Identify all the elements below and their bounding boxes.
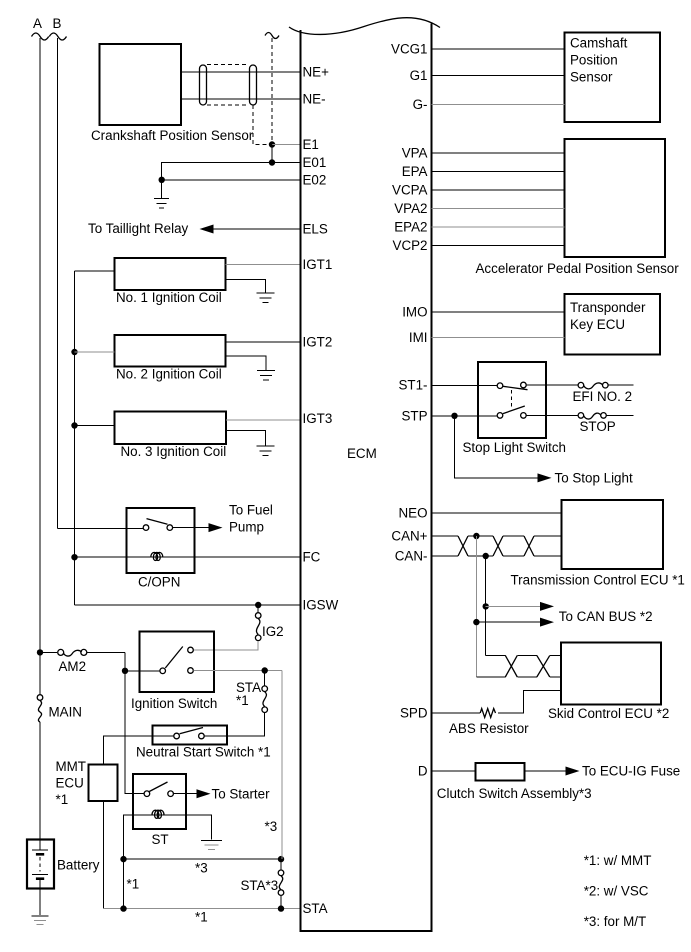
svg-text:CAN+: CAN+ bbox=[391, 529, 427, 544]
wire fuel pump switch feed bbox=[58, 528, 144, 530]
fuse EFI NO. 2 bbox=[578, 382, 633, 388]
svg-text:IG2: IG2 bbox=[262, 624, 284, 639]
stop light switch bbox=[478, 362, 546, 438]
ECM right edge bbox=[431, 24, 433, 932]
svg-text:IGSW: IGSW bbox=[303, 598, 339, 613]
dashed wire to E1 bbox=[271, 38, 273, 141]
svg-text:*1: *1 bbox=[236, 693, 249, 708]
wire coil2 supply bbox=[75, 351, 115, 353]
node E02 junction bbox=[159, 177, 165, 183]
wire ST coil to STA line bbox=[123, 859, 125, 909]
svg-text:*1: *1 bbox=[56, 792, 69, 807]
contact ST right bbox=[168, 791, 174, 797]
battery bbox=[27, 840, 54, 916]
svg-text:VCP2: VCP2 bbox=[393, 238, 428, 253]
svg-text:Crankshaft Position Sensor: Crankshaft Position Sensor bbox=[91, 128, 254, 143]
svg-text:To Fuel: To Fuel bbox=[229, 503, 273, 518]
relay ST bbox=[133, 774, 186, 829]
svg-text:To ECU-IG Fuse: To ECU-IG Fuse bbox=[582, 764, 680, 779]
wire ST relay feed bbox=[125, 671, 144, 794]
svg-text:*3: *3 bbox=[265, 819, 278, 834]
skid twisted pair crossings bbox=[505, 655, 550, 677]
wire MMT ECU to STA line bbox=[102, 801, 104, 909]
contact ignition common (bottom left) bbox=[160, 668, 166, 674]
wire ST coil ground bbox=[186, 815, 211, 840]
svg-text:VPA2: VPA2 bbox=[394, 201, 427, 216]
wire EPA2 bbox=[432, 226, 565, 228]
svg-text:FC: FC bbox=[303, 550, 321, 565]
wire CAN+ drop bbox=[475, 536, 477, 677]
transponder key ECU bbox=[565, 294, 661, 355]
wire E02 bbox=[162, 179, 300, 181]
wire IGT2 bbox=[226, 341, 301, 343]
node STA*1 junction bbox=[262, 667, 268, 673]
arrow to ECU-IG fuse bbox=[566, 767, 580, 776]
node to stop light junction bbox=[451, 413, 457, 419]
svg-text:E01: E01 bbox=[303, 155, 327, 170]
svg-text:To Starter: To Starter bbox=[212, 786, 271, 801]
arrow to starter bbox=[197, 789, 211, 798]
wire E1 bbox=[272, 144, 300, 146]
wire G- bbox=[432, 104, 565, 106]
svg-text:IMI: IMI bbox=[409, 330, 428, 345]
svg-text:G1: G1 bbox=[410, 68, 428, 83]
wire coil3 ground bbox=[226, 430, 266, 446]
MMT ECU bbox=[89, 764, 118, 801]
contact NSS right bbox=[199, 733, 205, 739]
svg-text:No. 1 Ignition Coil: No. 1 Ignition Coil bbox=[116, 290, 222, 305]
wire coil1 ground bbox=[226, 279, 266, 293]
wire VCG1 bbox=[432, 48, 565, 50]
node IG2 junction bbox=[255, 602, 261, 608]
accelerator pedal position sensor bbox=[565, 139, 666, 257]
wire IGT1 bbox=[226, 264, 301, 266]
ground (coil 1) bbox=[257, 293, 275, 303]
svg-text:AM2: AM2 bbox=[59, 659, 87, 674]
wire IGT3 bbox=[226, 419, 300, 421]
svg-text:To Stop Light: To Stop Light bbox=[555, 470, 633, 485]
svg-text:*2: w/ VSC: *2: w/ VSC bbox=[584, 884, 649, 899]
svg-text:CAN-: CAN- bbox=[395, 548, 428, 563]
shield (dashed) bbox=[207, 65, 249, 106]
svg-text:No. 3 Ignition Coil: No. 3 Ignition Coil bbox=[121, 444, 227, 459]
node coil2 supply junction bbox=[71, 349, 77, 355]
node AM2 junction on wire A bbox=[37, 649, 43, 655]
wire VPA bbox=[432, 152, 565, 154]
svg-text:MMT: MMT bbox=[56, 759, 87, 774]
node FC-bus junction bbox=[71, 554, 77, 560]
node CAN bus arrow top junction bbox=[483, 603, 489, 609]
relay C/OPN bbox=[127, 508, 195, 573]
svg-text:Neutral Start Switch *1: Neutral Start Switch *1 bbox=[136, 745, 271, 760]
wire EPA bbox=[432, 171, 565, 173]
ground (coil 2) bbox=[257, 371, 275, 381]
svg-text:ELS: ELS bbox=[303, 222, 328, 237]
wire A break symbol bbox=[32, 33, 49, 40]
ignition coil 2 bbox=[115, 335, 226, 367]
svg-text:E02: E02 bbox=[303, 172, 327, 187]
wire IGSW bbox=[75, 604, 301, 606]
svg-text:VCPA: VCPA bbox=[392, 183, 428, 198]
arrow to stop light bbox=[538, 473, 552, 482]
wire CAN- (twisted pair bottom) bbox=[432, 555, 562, 557]
stop switch bottom blade bbox=[503, 406, 525, 414]
svg-text:SPD: SPD bbox=[400, 706, 428, 721]
node ST feed junction bbox=[122, 668, 128, 674]
ECM right pin labels bbox=[391, 42, 428, 779]
arrow to taillight relay bbox=[200, 225, 214, 234]
wire to fuel pump bbox=[173, 527, 210, 529]
wire CAN- drop bbox=[485, 556, 487, 655]
svg-text:STP: STP bbox=[401, 408, 427, 423]
node STA-MMT junction bbox=[120, 905, 126, 911]
node STA-STA*3 junction bbox=[278, 905, 284, 911]
svg-text:*3: for M/T: *3: for M/T bbox=[584, 914, 647, 929]
svg-text:STA*3: STA*3 bbox=[241, 878, 279, 893]
ground (battery) bbox=[32, 915, 49, 917]
clutch switch assembly bbox=[475, 763, 524, 780]
wire ST1- bbox=[432, 384, 578, 386]
shield connector capsule left bbox=[200, 65, 207, 105]
svg-text:Skid Control ECU *2: Skid Control ECU *2 bbox=[548, 706, 669, 721]
svg-text:Position: Position bbox=[570, 53, 618, 68]
svg-text:IMO: IMO bbox=[402, 305, 427, 320]
svg-text:IGT3: IGT3 bbox=[303, 411, 333, 426]
wire to starter bbox=[174, 793, 198, 795]
wire VPA2 bbox=[432, 208, 565, 210]
svg-text:Sensor: Sensor bbox=[570, 70, 613, 85]
svg-text:Camshaft: Camshaft bbox=[570, 36, 628, 51]
connector IG2 bbox=[194, 605, 262, 650]
svg-text:EPA: EPA bbox=[402, 164, 428, 179]
svg-text:G-: G- bbox=[413, 97, 428, 112]
svg-text:NE+: NE+ bbox=[303, 65, 330, 80]
wire to stop light bbox=[455, 416, 539, 478]
fusible link MAIN bbox=[37, 695, 43, 722]
ignition switch blade bbox=[165, 647, 183, 669]
svg-text:NEO: NEO bbox=[398, 505, 427, 520]
contact ST left bbox=[144, 791, 150, 797]
svg-text:E1: E1 bbox=[303, 137, 319, 152]
svg-text:*1: *1 bbox=[195, 910, 208, 925]
wire E1-E01 link bbox=[271, 145, 273, 163]
skid control ECU bbox=[561, 643, 661, 705]
ECM left pin labels bbox=[303, 65, 339, 917]
ECM bottom edge bbox=[300, 930, 433, 932]
svg-text:C/OPN: C/OPN bbox=[138, 575, 180, 590]
wire E01 bbox=[162, 163, 300, 199]
wire NSS to MMT ECU bbox=[103, 736, 173, 764]
svg-text:*1: *1 bbox=[127, 877, 140, 892]
C/OPN switch blade bbox=[147, 519, 168, 525]
svg-text:Ignition Switch: Ignition Switch bbox=[131, 696, 217, 711]
ground (E01/E02) bbox=[154, 199, 169, 209]
svg-text:Accelerator Pedal Position Sen: Accelerator Pedal Position Sensor bbox=[476, 261, 680, 276]
resistor ABS bbox=[480, 709, 495, 718]
svg-text:To Taillight Relay: To Taillight Relay bbox=[88, 221, 189, 236]
svg-text:ST: ST bbox=[152, 832, 169, 847]
wire ignition ST output bbox=[194, 670, 283, 672]
contact stop switch bottom-left bbox=[497, 413, 503, 419]
shield connector capsule right bbox=[250, 65, 257, 105]
crankshaft position sensor bbox=[100, 44, 182, 125]
wire NE+ bbox=[181, 71, 300, 73]
wire to ECU-IG fuse bbox=[524, 770, 566, 772]
svg-text:VCG1: VCG1 bbox=[391, 42, 427, 57]
contact ignition IG2 (top right) bbox=[188, 647, 194, 653]
node *3 right junction bbox=[278, 856, 284, 862]
wire B (vertical rail) bbox=[57, 38, 59, 529]
connector STA*3 bbox=[278, 859, 284, 909]
dashed wire break (top) bbox=[265, 33, 279, 39]
wire VCPA bbox=[432, 189, 565, 191]
twisted pair crossings bbox=[458, 536, 534, 556]
wire ELS with arrow bbox=[213, 228, 300, 230]
wire NEO bbox=[432, 512, 562, 514]
svg-text:STA: STA bbox=[303, 901, 328, 916]
wire G1 bbox=[432, 75, 565, 77]
wire VCP2 bbox=[432, 245, 565, 247]
ignition switch bbox=[140, 632, 215, 693]
svg-text:ECM: ECM bbox=[347, 446, 377, 461]
ignition coil 3 bbox=[115, 412, 227, 445]
svg-text:VPA: VPA bbox=[402, 146, 428, 161]
svg-text:Pump: Pump bbox=[229, 520, 264, 535]
wire FC bbox=[75, 556, 301, 558]
svg-text:*1: w/ MMT: *1: w/ MMT bbox=[584, 853, 652, 868]
wire *3 column (from ST line) bbox=[281, 671, 283, 860]
contact C/OPN right bbox=[167, 525, 173, 531]
svg-text:To CAN BUS *2: To CAN BUS *2 bbox=[559, 609, 653, 624]
svg-text:ABS Resistor: ABS Resistor bbox=[449, 721, 529, 736]
wire skid CAN bottom bbox=[476, 676, 561, 678]
wire to CAN bus (bottom arrow) bbox=[476, 621, 541, 623]
wire coil2 ground bbox=[226, 356, 267, 371]
contact C/OPN left bbox=[143, 525, 149, 531]
shield drain wire (dashed) bbox=[253, 105, 268, 145]
svg-text:Clutch Switch Assembly*3: Clutch Switch Assembly*3 bbox=[437, 786, 592, 801]
ST blade bbox=[149, 782, 167, 792]
stop switch top blade bbox=[503, 386, 528, 389]
ground (coil 3) bbox=[257, 446, 275, 456]
camshaft position sensor bbox=[565, 33, 661, 123]
node CAN+ tap bbox=[473, 533, 479, 539]
svg-text:A: A bbox=[33, 16, 42, 31]
svg-text:*3: *3 bbox=[195, 861, 208, 876]
wire AM2 to ignition switch bbox=[125, 652, 160, 670]
wire A (vertical rail) bbox=[39, 38, 41, 840]
node E01 junction bbox=[269, 159, 275, 165]
contact stop switch top-right bbox=[521, 382, 527, 388]
relay coil C/OPN bbox=[151, 552, 163, 560]
svg-text:D: D bbox=[418, 764, 428, 779]
svg-text:EFI NO. 2: EFI NO. 2 bbox=[573, 389, 633, 404]
NSS blade bbox=[180, 728, 203, 734]
fuse AM2 bbox=[40, 649, 125, 656]
svg-text:Transmission Control ECU *1: Transmission Control ECU *1 bbox=[511, 573, 685, 588]
connector STA *1 bbox=[204, 671, 267, 737]
contact stop switch top-left bbox=[497, 383, 503, 389]
contact stop switch bottom-right bbox=[521, 413, 527, 419]
transmission control ECU bbox=[562, 500, 664, 569]
wire D bbox=[432, 770, 476, 772]
ignition coil 1 bbox=[115, 258, 226, 290]
neutral start switch bbox=[152, 726, 227, 745]
IG2 power bus bbox=[74, 271, 76, 605]
svg-text:No. 2 Ignition Coil: No. 2 Ignition Coil bbox=[116, 367, 222, 382]
svg-text:NE-: NE- bbox=[303, 92, 326, 107]
wire STA (bottom) bbox=[103, 908, 300, 910]
wire NE- bbox=[181, 98, 300, 100]
svg-text:IGT1: IGT1 bbox=[303, 257, 333, 272]
svg-text:ECU: ECU bbox=[56, 776, 84, 791]
node CAN- tap bbox=[483, 553, 489, 559]
wire STP bbox=[432, 414, 578, 416]
wire skid CAN top bbox=[486, 654, 561, 656]
node coil3 supply junction bbox=[71, 422, 77, 428]
contact NSS left bbox=[174, 733, 180, 739]
wire SPD to skid ECU bbox=[498, 690, 561, 713]
svg-text:B: B bbox=[53, 16, 62, 31]
svg-text:Battery: Battery bbox=[57, 858, 100, 873]
arrow to fuel pump bbox=[209, 523, 223, 532]
wire ST coil left bbox=[124, 815, 134, 859]
wire coil3 supply bbox=[75, 425, 115, 427]
node CAN bus arrow bottom junction bbox=[473, 619, 479, 625]
wire CAN+ (twisted pair top) bbox=[432, 535, 562, 537]
ECM top break curve bbox=[289, 18, 440, 35]
svg-text:Stop Light Switch: Stop Light Switch bbox=[463, 440, 566, 455]
relay coil ST bbox=[133, 814, 186, 816]
fuse STOP bbox=[578, 413, 633, 419]
mechanical link (dashed) bbox=[511, 390, 513, 408]
wire coil1 supply bbox=[75, 270, 115, 272]
wire B break symbol bbox=[49, 33, 66, 40]
ground (ST) bbox=[201, 840, 222, 842]
wire IMO bbox=[432, 311, 565, 313]
node *3 left junction bbox=[120, 856, 126, 862]
svg-text:ST1-: ST1- bbox=[398, 378, 427, 393]
svg-text:IGT2: IGT2 bbox=[303, 335, 333, 350]
svg-text:MAIN: MAIN bbox=[49, 705, 82, 720]
wire SPD bbox=[432, 712, 481, 714]
contact ignition ST (bottom right) bbox=[188, 668, 194, 674]
wire IMI bbox=[432, 337, 565, 339]
node E1 junction bbox=[269, 141, 275, 147]
wire *3 bbox=[124, 858, 282, 860]
svg-text:STOP: STOP bbox=[580, 419, 616, 434]
svg-text:Transponder: Transponder bbox=[570, 300, 646, 315]
wire to CAN bus (top arrow) bbox=[486, 605, 541, 607]
svg-text:EPA2: EPA2 bbox=[394, 220, 427, 235]
svg-text:Key ECU: Key ECU bbox=[570, 317, 625, 332]
ECM left edge bbox=[300, 30, 302, 932]
